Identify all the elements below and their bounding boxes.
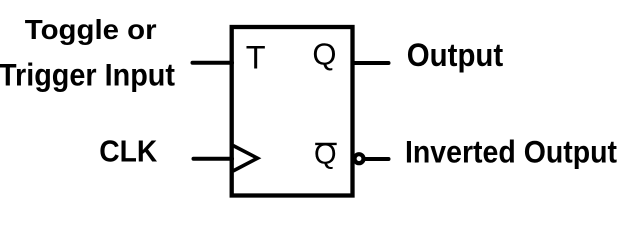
- wire CLK input: [194, 157, 233, 161]
- wire Qbar output: [366, 157, 389, 161]
- wire Q output: [353, 61, 389, 65]
- clock edge-trigger symbol: [233, 146, 258, 172]
- Qbar overline: [315, 143, 337, 145]
- svg-text:Output: Output: [407, 37, 504, 73]
- svg-text:CLK: CLK: [99, 135, 157, 169]
- svg-text:Q: Q: [312, 37, 336, 72]
- wire T input: [193, 61, 233, 65]
- svg-text:Trigger Input: Trigger Input: [0, 56, 175, 92]
- inversion bubble: [355, 154, 364, 163]
- svg-text:Toggle or: Toggle or: [25, 14, 157, 45]
- flip-flop body U1: [232, 27, 353, 196]
- svg-text:T: T: [246, 40, 266, 76]
- svg-text:Inverted Output: Inverted Output: [405, 133, 617, 169]
